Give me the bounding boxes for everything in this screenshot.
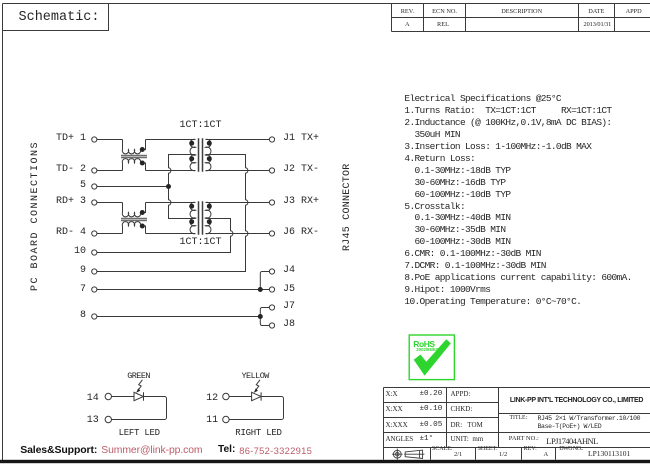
common-mode choke CM1 core — [121, 156, 147, 158]
revision table texts — [401, 8, 414, 15]
sheet border top — [3, 3, 650, 5]
LED D1 green: pin 13 terminal — [105, 416, 111, 422]
wire pin4 to choke CM2 — [97, 233, 123, 235]
transformer T1 dots — [189, 141, 212, 162]
wire choke CM1 to transformer T1 top — [146, 139, 196, 141]
wire T2 to J3 — [206, 202, 270, 204]
third-angle projection symbol — [392, 449, 424, 460]
pin 7 terminal — [92, 287, 97, 292]
LED D2 yellow diode — [229, 392, 283, 419]
common-mode choke CM1 polarity dot bottom — [140, 161, 145, 166]
node junction pin5 center taps — [166, 184, 171, 189]
wire net5 vertical connecting T1/T2 left center taps with hops — [169, 155, 196, 219]
pin 2 terminal — [92, 168, 97, 173]
wire pin5 to center-tap node — [97, 186, 169, 188]
wire pin3 to choke CM2 — [97, 202, 123, 204]
common-mode choke CM1 top winding — [122, 140, 145, 154]
terminal J4 — [269, 269, 274, 274]
terminal J1 — [269, 137, 274, 142]
wire choke CM2 to transformer T2 bottom — [146, 233, 196, 235]
wire choke CM1 to transformer T1 bottom — [146, 170, 196, 172]
pin 10 terminal — [92, 250, 97, 255]
common-mode choke CM2 top winding — [122, 203, 145, 217]
node junction J4/J5 — [258, 287, 263, 292]
pin labels left — [56, 133, 86, 144]
pin 3 terminal — [92, 200, 97, 205]
wire pin1 to choke CM1 — [97, 139, 123, 141]
terminal J7 — [269, 305, 274, 310]
pin 4 terminal — [92, 231, 97, 236]
electrical specifications block — [404, 93, 631, 307]
title block texts — [386, 390, 398, 398]
transformer T2 dots — [189, 204, 212, 225]
wire J4 stub — [260, 272, 269, 290]
wire J7/J8 tie — [260, 308, 269, 326]
transformer T1 left winding — [190, 139, 195, 170]
schematic heading — [19, 10, 100, 25]
pin 5 terminal — [92, 184, 97, 189]
wire T1 to J1 — [206, 139, 270, 141]
node junction J7/J8 — [258, 314, 263, 319]
RJ45 CONNECTOR vertical label — [342, 163, 353, 251]
wire choke CM2 to transformer T2 top — [146, 202, 196, 204]
terminal J3 — [269, 200, 274, 205]
wire T1 right center tap to pin9 with hops — [97, 155, 248, 272]
terminal J6 — [269, 231, 274, 236]
terminal J2 — [269, 168, 274, 173]
wire pin8 to J7/J8 — [97, 316, 260, 318]
transformer T1 core — [199, 138, 203, 171]
transformer T1 right winding — [206, 139, 211, 170]
LED D2 yellow: pin 12 terminal — [223, 393, 229, 399]
LED D1 light arrow — [138, 380, 142, 390]
common-mode choke CM2 polarity dot bottom — [140, 224, 145, 229]
wire pin7 to J5 — [97, 289, 270, 291]
wire T2 to J6 — [206, 233, 270, 235]
common-mode choke CM2 bottom winding — [122, 222, 145, 234]
transformer T2 core — [199, 201, 203, 234]
LED labels — [127, 371, 150, 381]
transformer ratio labels — [180, 120, 222, 131]
pin 1 terminal — [92, 137, 97, 142]
sheet bottom black bar — [0, 460, 650, 463]
wire T2 right center tap to pin10 with hop — [97, 219, 233, 253]
wire T1 to J2 — [206, 170, 270, 172]
schematic title box — [3, 4, 109, 31]
common-mode choke CM2 core — [121, 219, 147, 221]
common-mode choke CM2 polarity dot top — [140, 210, 145, 215]
wire pin2 to choke CM1 — [97, 170, 123, 172]
RoHS logo text — [413, 339, 434, 349]
LED D2 light arrow — [256, 380, 260, 390]
pin 9 terminal — [92, 269, 97, 274]
J labels right — [283, 133, 319, 144]
transformer T2 left winding — [190, 202, 195, 233]
revision table frame — [392, 4, 650, 32]
LED D1 green: pin 14 terminal — [105, 393, 111, 399]
common-mode choke CM1 polarity dot top — [140, 147, 145, 152]
terminal J5 — [269, 287, 274, 292]
common-mode choke CM1 bottom winding — [122, 159, 145, 171]
transformer T2 right winding — [206, 202, 211, 233]
title block frame — [384, 388, 650, 460]
LED D1 green diode — [112, 392, 167, 419]
RoHS logo — [409, 335, 454, 380]
pin 8 terminal — [92, 314, 97, 319]
PC BOARD CONNECTIONS vertical label — [30, 141, 41, 291]
LED D2 yellow: pin 11 terminal — [223, 416, 229, 422]
contact line — [20, 444, 97, 456]
terminal J8 — [269, 323, 274, 328]
sheet border left — [2, 4, 4, 461]
